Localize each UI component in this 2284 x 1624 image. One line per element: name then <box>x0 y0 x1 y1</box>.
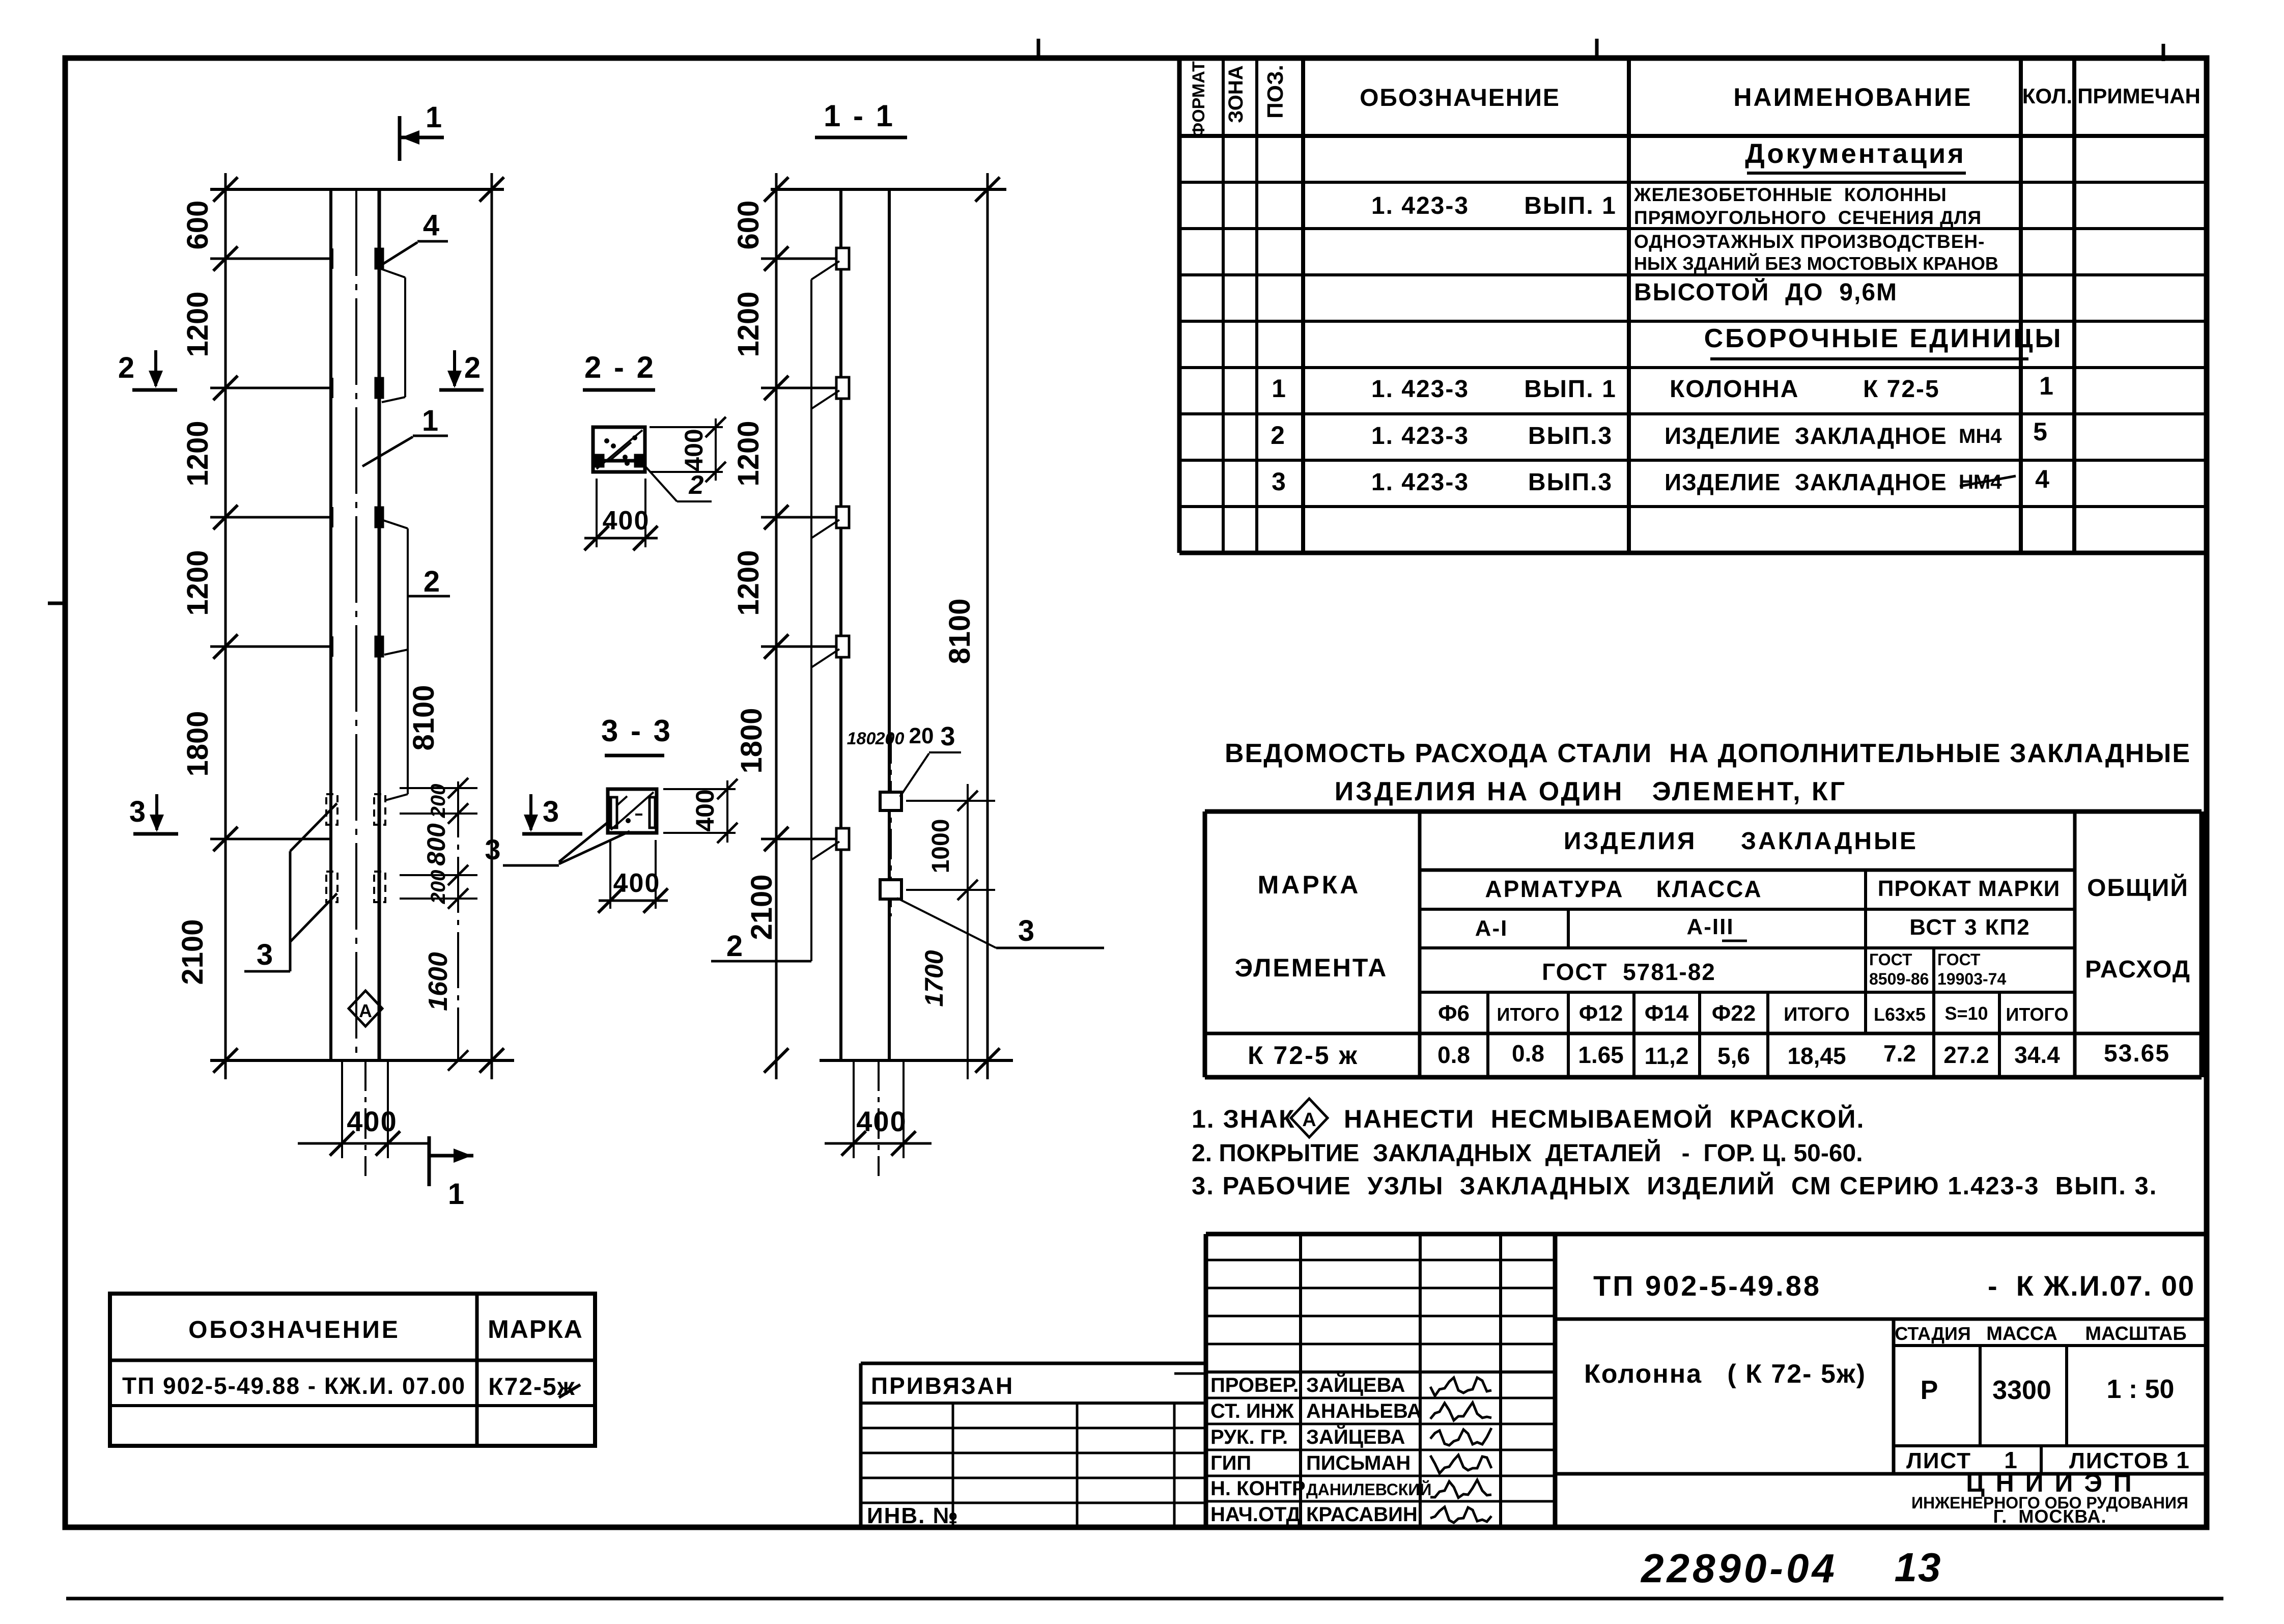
svg-text:8100: 8100 <box>943 598 976 664</box>
svg-text:ИТОГО: ИТОГО <box>1497 1004 1560 1025</box>
svg-text:2: 2 <box>1271 421 1285 450</box>
svg-text:МАРКА: МАРКА <box>1258 871 1361 899</box>
svg-text:2: 2 <box>424 565 440 598</box>
svg-text:АРМАТУРА КЛАССА: АРМАТУРА КЛАССА <box>1485 876 1762 902</box>
svg-text:8509-86: 8509-86 <box>1869 970 1929 988</box>
svg-text:ГОСТ 5781-82: ГОСТ 5781-82 <box>1542 959 1716 985</box>
svg-text:20: 20 <box>909 723 934 748</box>
svg-text:1 : 50: 1 : 50 <box>2107 1375 2175 1404</box>
svg-text:Ф12: Ф12 <box>1579 1001 1623 1026</box>
svg-text:11,2: 11,2 <box>1645 1043 1689 1069</box>
svg-text:3: 3 <box>1018 914 1034 947</box>
svg-text:2: 2 <box>118 351 134 384</box>
svg-text:1700: 1700 <box>920 950 948 1006</box>
svg-text:200: 200 <box>427 870 449 905</box>
svg-text:2100: 2100 <box>745 874 778 940</box>
svg-text:400: 400 <box>603 506 650 536</box>
svg-text:МН4: МН4 <box>1959 425 2002 447</box>
svg-text:ПРОКАТ МАРКИ: ПРОКАТ МАРКИ <box>1878 876 2060 901</box>
svg-text:1: 1 <box>2039 372 2053 400</box>
svg-text:1200: 1200 <box>181 291 214 357</box>
svg-text:2: 2 <box>689 470 704 500</box>
svg-text:53.65: 53.65 <box>2104 1040 2170 1067</box>
svg-text:0.8: 0.8 <box>1437 1042 1470 1068</box>
svg-text:ОДНОЭТАЖНЫХ ПРОИЗВОДСТВЕН-: ОДНОЭТАЖНЫХ ПРОИЗВОДСТВЕН- <box>1634 231 1985 252</box>
svg-text:ВЫП.3: ВЫП.3 <box>1528 423 1613 450</box>
svg-text:ИЗДЕЛИЯ НА ОДИН ЭЛЕМЕНТ, КГ: ИЗДЕЛИЯ НА ОДИН ЭЛЕМЕНТ, КГ <box>1335 777 1847 806</box>
svg-text:0.8: 0.8 <box>1512 1040 1544 1067</box>
svg-text:К 72-5: К 72-5 <box>1863 376 1940 403</box>
svg-text:НЫХ ЗДАНИЙ БЕЗ МОСТОВЫХ КРАНОВ: НЫХ ЗДАНИЙ БЕЗ МОСТОВЫХ КРАНОВ <box>1634 253 1998 274</box>
svg-text:1000: 1000 <box>927 819 954 874</box>
svg-text:3: 3 <box>1272 467 1286 496</box>
svg-text:400: 400 <box>691 789 719 831</box>
svg-text:МАССА: МАССА <box>1986 1323 2057 1345</box>
svg-text:ИЗДЕЛИЯ ЗАКЛАДНЫЕ: ИЗДЕЛИЯ ЗАКЛАДНЫЕ <box>1564 828 1918 855</box>
svg-text:ИЗДЕЛИЕ ЗАКЛАДНОЕ: ИЗДЕЛИЕ ЗАКЛАДНОЕ <box>1665 469 1947 495</box>
svg-text:Колонна ( К 72- 5ж): Колонна ( К 72- 5ж) <box>1584 1359 1866 1389</box>
svg-text:- К Ж.И.07. 00: - К Ж.И.07. 00 <box>1988 1270 2195 1302</box>
svg-text:1800: 1800 <box>735 708 768 773</box>
svg-text:1200: 1200 <box>732 421 765 486</box>
svg-text:А: А <box>1302 1109 1316 1131</box>
svg-text:S=10: S=10 <box>1944 1003 1988 1024</box>
svg-text:ИНВ. №: ИНВ. № <box>867 1503 959 1528</box>
svg-text:1: 1 <box>448 1178 464 1211</box>
svg-text:ИТОГО: ИТОГО <box>2006 1004 2069 1025</box>
svg-text:1. 423-3: 1. 423-3 <box>1371 423 1469 450</box>
svg-text:1200: 1200 <box>181 421 214 486</box>
svg-text:1200: 1200 <box>732 550 765 615</box>
svg-text:200: 200 <box>875 729 905 748</box>
svg-text:ПРЯМОУГОЛЬНОГО СЕЧЕНИЯ ДЛЯ: ПРЯМОУГОЛЬНОГО СЕЧЕНИЯ ДЛЯ <box>1634 207 1982 228</box>
svg-text:ЗАЙЦЕВА: ЗАЙЦЕВА <box>1306 1373 1405 1396</box>
svg-text:34.4: 34.4 <box>2014 1042 2060 1068</box>
svg-text:АНАНЬЕВА: АНАНЬЕВА <box>1306 1400 1422 1422</box>
svg-text:1: 1 <box>2176 1447 2189 1473</box>
svg-text:5,6: 5,6 <box>1717 1043 1750 1069</box>
svg-text:ГИП: ГИП <box>1210 1452 1251 1474</box>
svg-text:27.2: 27.2 <box>1943 1042 1989 1068</box>
svg-text:Г. МОСКВА.: Г. МОСКВА. <box>1993 1506 2106 1527</box>
svg-text:РУК. ГР.: РУК. ГР. <box>1210 1426 1288 1448</box>
svg-text:3. РАБОЧИЕ УЗЛЫ ЗАКЛАДНЫХ И: 3. РАБОЧИЕ УЗЛЫ ЗАКЛАДНЫХ ИЗДЕЛИЙ СМ СЕР… <box>1192 1172 2157 1200</box>
svg-text:1 - 1: 1 - 1 <box>824 99 895 133</box>
svg-text:ВЫСОТОЙ ДО 9,6М: ВЫСОТОЙ ДО 9,6М <box>1634 278 1898 306</box>
svg-text:2: 2 <box>464 351 481 384</box>
svg-text:ФОРМАТ: ФОРМАТ <box>1189 61 1208 137</box>
svg-text:4: 4 <box>423 209 439 242</box>
svg-text:2. ПОКРЫТИЕ ЗАКЛАДНЫХ ДЕТАЛЕ: 2. ПОКРЫТИЕ ЗАКЛАДНЫХ ДЕТАЛЕЙ - ГОР. Ц. … <box>1192 1139 1863 1167</box>
svg-text:КОЛ.: КОЛ. <box>2022 84 2072 108</box>
svg-text:1. 423-3: 1. 423-3 <box>1371 192 1469 219</box>
svg-text:Р: Р <box>1921 1376 1938 1405</box>
svg-text:ОБЩИЙ: ОБЩИЙ <box>2087 874 2189 902</box>
svg-text:ЖЕЛЕЗОБЕТОННЫЕ КОЛОННЫ: ЖЕЛЕЗОБЕТОННЫЕ КОЛОННЫ <box>1633 184 1947 205</box>
svg-text:ЭЛЕМЕНТА: ЭЛЕМЕНТА <box>1235 954 1388 982</box>
svg-text:400: 400 <box>347 1105 397 1137</box>
svg-text:СТ. ИНЖ: СТ. ИНЖ <box>1210 1400 1294 1422</box>
svg-text:ЗОНА: ЗОНА <box>1225 65 1247 123</box>
svg-text:ВЕДОМОСТЬ РАСХОДА СТАЛИ НА ДО: ВЕДОМОСТЬ РАСХОДА СТАЛИ НА ДОПОЛНИТЕЛЬНЫ… <box>1225 739 2191 768</box>
svg-text:4: 4 <box>2035 465 2049 493</box>
svg-text:ИТОГО: ИТОГО <box>1784 1004 1850 1025</box>
svg-text:А: А <box>359 1000 372 1021</box>
svg-text:8100: 8100 <box>407 685 440 750</box>
svg-text:180: 180 <box>847 729 876 748</box>
svg-text:СТАДИЯ: СТАДИЯ <box>1895 1323 1971 1344</box>
svg-text:19903-74: 19903-74 <box>1937 970 2006 988</box>
svg-text:400: 400 <box>613 869 661 898</box>
svg-text:3: 3 <box>941 722 955 751</box>
svg-text:ПИСЬМАН: ПИСЬМАН <box>1306 1452 1411 1474</box>
svg-text:Ф6: Ф6 <box>1438 1001 1470 1026</box>
svg-text:3: 3 <box>543 795 559 828</box>
svg-text:1. 423-3: 1. 423-3 <box>1371 376 1469 403</box>
svg-text:600: 600 <box>732 201 765 250</box>
svg-text:1: 1 <box>422 404 438 437</box>
svg-text:ЗАЙЦЕВА: ЗАЙЦЕВА <box>1306 1425 1405 1448</box>
svg-text:МАРКА: МАРКА <box>488 1315 583 1343</box>
svg-text:Документация: Документация <box>1745 138 1965 169</box>
svg-text:СБОРОЧНЫЕ ЕДИНИЦЫ: СБОРОЧНЫЕ ЕДИНИЦЫ <box>1704 324 2063 353</box>
svg-text:600: 600 <box>181 201 214 250</box>
svg-text:Н. КОНТР: Н. КОНТР <box>1210 1477 1306 1500</box>
svg-text:НАНЕСТИ НЕСМЫВАЕМОЙ КРАСКОЙ.: НАНЕСТИ НЕСМЫВАЕМОЙ КРАСКОЙ. <box>1344 1104 1865 1133</box>
svg-text:ОБОЗНАЧЕНИЕ: ОБОЗНАЧЕНИЕ <box>188 1317 400 1343</box>
svg-text:ВЫП. 1: ВЫП. 1 <box>1524 192 1617 219</box>
svg-text:L63х5: L63х5 <box>1874 1004 1926 1025</box>
svg-text:ВСТ 3 КП2: ВСТ 3 КП2 <box>1909 915 2031 940</box>
svg-text:МАСШТАБ: МАСШТАБ <box>2085 1323 2186 1345</box>
svg-text:КРАСАВИН: КРАСАВИН <box>1306 1503 1418 1526</box>
svg-text:ПРОВЕР.: ПРОВЕР. <box>1210 1374 1299 1396</box>
svg-text:13: 13 <box>1895 1545 1942 1590</box>
svg-text:КОЛОННА: КОЛОННА <box>1670 376 1799 403</box>
svg-text:ИЗДЕЛИЕ ЗАКЛАДНОЕ: ИЗДЕЛИЕ ЗАКЛАДНОЕ <box>1665 423 1947 449</box>
svg-text:РАСХОД: РАСХОД <box>2085 956 2191 983</box>
svg-text:А-I: А-I <box>1475 916 1508 941</box>
svg-text:400: 400 <box>680 429 708 471</box>
svg-text:1800: 1800 <box>181 711 214 776</box>
svg-text:18,45: 18,45 <box>1787 1043 1846 1069</box>
svg-text:2 - 2: 2 - 2 <box>584 350 656 384</box>
svg-text:1200: 1200 <box>732 291 765 357</box>
svg-text:НАИМЕНОВАНИЕ: НАИМЕНОВАНИЕ <box>1733 83 1972 111</box>
svg-text:5: 5 <box>2033 417 2047 446</box>
svg-text:Ф14: Ф14 <box>1645 1001 1689 1026</box>
svg-text:ГОСТ: ГОСТ <box>1937 950 1981 969</box>
svg-text:ЛИСТ: ЛИСТ <box>1906 1448 1971 1473</box>
svg-text:22890-04: 22890-04 <box>1640 1546 1838 1591</box>
svg-text:2100: 2100 <box>176 919 209 985</box>
svg-text:3 - 3: 3 - 3 <box>601 714 672 748</box>
svg-text:ОБОЗНАЧЕНИЕ: ОБОЗНАЧЕНИЕ <box>1360 85 1560 111</box>
svg-text:ГОСТ: ГОСТ <box>1869 950 1912 969</box>
svg-text:ВЫП. 1: ВЫП. 1 <box>1524 376 1617 403</box>
svg-text:7.2: 7.2 <box>1883 1040 1916 1067</box>
svg-text:1: 1 <box>1272 374 1286 403</box>
svg-text:3: 3 <box>257 938 273 971</box>
svg-text:1600: 1600 <box>424 952 453 1011</box>
svg-text:ТП 902-5-49.88 - КЖ.И. 07.00: ТП 902-5-49.88 - КЖ.И. 07.00 <box>122 1373 466 1399</box>
svg-text:1: 1 <box>426 101 442 134</box>
svg-text:ВЫП.3: ВЫП.3 <box>1528 469 1613 496</box>
svg-text:3300: 3300 <box>1992 1376 2051 1405</box>
svg-text:3: 3 <box>485 833 500 865</box>
svg-text:ПРИМЕЧАН: ПРИМЕЧАН <box>2077 84 2201 108</box>
svg-text:2: 2 <box>726 930 743 963</box>
svg-text:А-III: А-III <box>1686 914 1734 939</box>
svg-text:1.65: 1.65 <box>1578 1042 1624 1068</box>
svg-text:ПОЗ.: ПОЗ. <box>1263 65 1288 119</box>
svg-text:НАЧ.ОТД: НАЧ.ОТД <box>1210 1503 1301 1526</box>
svg-text:1. ЗНАК: 1. ЗНАК <box>1192 1105 1295 1133</box>
svg-text:3: 3 <box>129 795 146 828</box>
svg-text:400: 400 <box>856 1105 907 1137</box>
svg-text:Ф22: Ф22 <box>1712 1001 1756 1026</box>
svg-text:Ц Н И И Э П: Ц Н И И Э П <box>1966 1469 2133 1497</box>
svg-text:800: 800 <box>422 823 450 866</box>
svg-text:1. 423-3: 1. 423-3 <box>1371 469 1469 496</box>
svg-text:ТП 902-5-49.88: ТП 902-5-49.88 <box>1593 1270 1821 1302</box>
svg-text:К 72-5 ж: К 72-5 ж <box>1248 1041 1359 1070</box>
svg-text:200: 200 <box>427 784 449 819</box>
svg-text:1200: 1200 <box>181 550 214 615</box>
svg-text:ПРИВЯЗАН: ПРИВЯЗАН <box>871 1373 1014 1399</box>
svg-text:ДАНИЛЕВСКИЙ: ДАНИЛЕВСКИЙ <box>1306 1480 1431 1499</box>
